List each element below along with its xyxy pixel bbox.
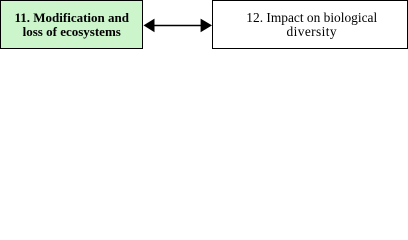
double-headed arrow bbox=[142, 18, 213, 33]
left arrowhead bbox=[144, 19, 155, 33]
box 11: Modification and loss of ecosystems bbox=[0, 0, 143, 49]
arrow shaft bbox=[153, 25, 202, 27]
box 12: Impact on biological diversity bbox=[212, 0, 408, 49]
right arrowhead bbox=[201, 19, 212, 33]
